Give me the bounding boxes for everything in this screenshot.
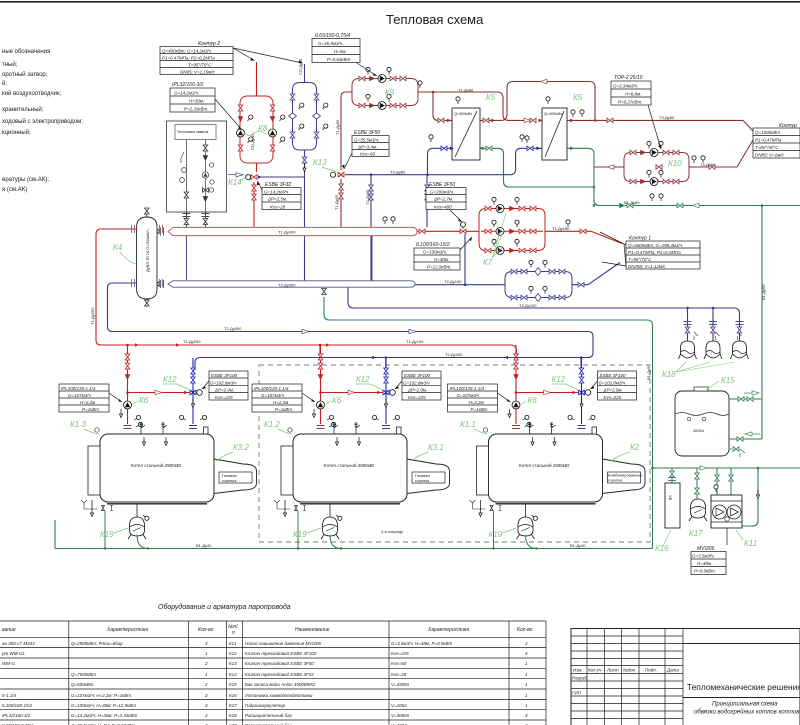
svg-text:Характеристика: Характеристика [106, 627, 148, 633]
svg-text:Q=500кВт: Q=500кВт [71, 682, 94, 687]
svg-text:й;: й; [2, 80, 7, 87]
svg-text:Расширительный бак: Расширительный бак [245, 712, 293, 718]
flow arrows red [135, 343, 139, 347]
svg-text:T=95°/70°C: T=95°/70°C [188, 63, 212, 68]
heat exchanger E1 (K5) [429, 97, 493, 160]
PIPES-LAYER [55, 62, 800, 550]
wire blue loop bottom stem down to blue collector [304, 150, 306, 281]
svg-text:G=3,5м3/ч; H=48м; P=0,9кВт: G=3,5м3/ч; H=48м; P=0,9кВт [391, 641, 453, 646]
svg-text:СО-Ду65: СО-Ду65 [298, 58, 303, 75]
svg-text:Тепловая схема: Тепловая схема [386, 12, 484, 27]
svg-text:№док.: №док. [623, 668, 636, 673]
svg-text:Тепловая завеса: Тепловая завеса [177, 129, 209, 134]
svg-text:IPL32/160-3/2: IPL32/160-3/2 [172, 82, 204, 88]
svg-text:Q=2900кВт; Pmax=6бар: Q=2900кВт; Pmax=6бар [71, 641, 123, 646]
wire K12 riser boiler2 [385, 358, 387, 371]
svg-text:ΔP=3,4м.: ΔP=3,4м. [357, 145, 377, 150]
svg-text:H=30м.: H=30м. [189, 99, 204, 104]
svg-text:К12: К12 [229, 651, 237, 656]
wire blue riser to E1 left port [428, 148, 453, 174]
svg-text:В1-Ду40: В1-Ду40 [196, 543, 212, 548]
svg-text:я (см.АК): я (см.АК) [2, 187, 27, 193]
svg-text:К2: К2 [630, 443, 640, 452]
svg-text:горелка: горелка [608, 478, 623, 483]
svg-text:Клапан трехходовой ESBE 3F50: Клапан трехходовой ESBE 3F50 [245, 660, 314, 666]
svg-text:ДуВП Ф720 G=300м3/ч: ДуВП Ф720 G=300м3/ч [145, 229, 150, 272]
svg-text:G=14,2м3/ч; H=30м; P=2,33кВт: G=14,2м3/ч; H=30м; P=2,33кВт [71, 713, 138, 718]
svg-text:IL65/150-0,75/4: IL65/150-0,75/4 [315, 33, 350, 39]
svg-text:К4: К4 [113, 243, 123, 252]
svg-text:Котел стальной 2900кВт: Котел стальной 2900кВт [519, 462, 570, 468]
info box IPL32/160 [170, 82, 242, 130]
pump group K7 (red 3-branch) [479, 197, 545, 254]
pump group SO blue loop [289, 83, 329, 151]
svg-text:2: 2 [204, 682, 208, 687]
svg-text:G=35,5м3/ч.: G=35,5м3/ч. [318, 41, 343, 46]
wire inter-collector verticals blue [187, 236, 373, 281]
info box ESBE 3F50 no.1 [342, 130, 389, 169]
svg-text:К18: К18 [229, 713, 237, 718]
svg-text:P=12,9кВт.: P=12,9кВт. [427, 265, 451, 270]
wire red collector out y231 to K7 and Kontur1 leader [417, 230, 479, 232]
svg-text:Т2-Ду80: Т2-Ду80 [390, 170, 406, 175]
wire blue collector out y285 to K7b loop [415, 284, 505, 286]
svg-text:Изм.: Изм. [573, 668, 583, 673]
svg-text:G=100м3/ч; H=30м; P=12,9кВт: G=100м3/ч; H=30м; P=12,9кВт [71, 703, 136, 708]
svg-text:К18: К18 [662, 370, 676, 379]
svg-text:Лист: Лист [606, 668, 619, 673]
svg-text:Q=500кВт: Q=500кВт [544, 111, 562, 116]
svg-text:Насос повышения давления MVI20: Насос повышения давления MVI206 [245, 641, 321, 646]
svg-text:Установка химводоподготовки: Установка химводоподготовки [245, 693, 313, 698]
info box IL65/150 [312, 33, 377, 76]
svg-text:DN250; V=1,12м/с: DN250; V=1,12м/с [628, 264, 666, 269]
svg-text:К16: К16 [229, 693, 237, 698]
valve K14 three-way [245, 174, 262, 179]
svg-text:Т2-Ду100: Т2-Ду100 [519, 303, 537, 308]
svg-text:обвязки водогрейных котлов кот: обвязки водогрейных котлов котлов [694, 709, 799, 716]
svg-text:К5: К5 [486, 93, 496, 102]
wire green bottom main y548 [55, 520, 653, 549]
svg-text:Наименование: Наименование [295, 627, 330, 633]
svg-text:Т2-Ду300: Т2-Ду300 [224, 326, 242, 331]
svg-text:В1-Ду40: В1-Ду40 [570, 543, 586, 548]
svg-text:V=4500л: V=4500л [391, 682, 410, 687]
wire green riser x762 from y205 down to K15 [761, 205, 763, 439]
svg-text:Гидроаккумулятор: Гидроаккумулятор [245, 703, 286, 708]
svg-text:ХВ: ХВ [668, 495, 673, 501]
info box MVI206 [691, 546, 726, 575]
svg-text:ан 300-LT М343: ан 300-LT М343 [2, 641, 35, 646]
svg-text:Кол-во: Кол-во [517, 627, 533, 633]
svg-text:ГИП: ГИП [572, 691, 582, 696]
svg-text:ходовый с электроприводом;: ходовый с электроприводом; [2, 118, 83, 125]
wire K13 blue out y175 with rise to E2 left port [345, 148, 542, 174]
water softener K16 [665, 468, 680, 528]
svg-text:К1.3: К1.3 [70, 420, 86, 429]
svg-text:IPL32/160-3/2: IPL32/160-3/2 [2, 713, 31, 718]
wire T2 line A+B blue: K4 left bottom, down x108, right y331.5, down x593, left y357.5, down to boiler3 K12 riser [108, 283, 594, 370]
svg-text:К1.1: К1.1 [460, 420, 476, 429]
wire green B1-Du80 y205 [594, 200, 800, 206]
svg-text:H=8,8м.: H=8,8м. [625, 92, 641, 97]
svg-text:H=5м.: H=5м. [334, 49, 347, 54]
svg-text:К13: К13 [229, 661, 237, 666]
wire green make-up y320 from blue collector to x652 down to y468 [324, 297, 653, 549]
svg-text:V=3000л: V=3000л [391, 713, 410, 718]
svg-text:К13: К13 [313, 158, 327, 167]
info box ESBE 3F50 no.2 [426, 182, 466, 222]
wire T3 leader to Kontur box [743, 120, 754, 132]
wire K10 right out T4 maroon [689, 140, 753, 167]
svg-text:Т1-Ду150: Т1-Ду150 [552, 226, 570, 231]
wire green B1 water main y468 [653, 467, 800, 469]
svg-text:Т1-Ду250: Т1-Ду250 [90, 307, 95, 325]
valves on T3 main near TOR leader [607, 118, 613, 123]
collector T2 (return header) [153, 280, 415, 295]
svg-text:G=200м3/ч.: G=200м3/ч. [430, 190, 454, 195]
svg-text:2: 2 [524, 641, 528, 646]
svg-text:рт WM-GL: рт WM-GL [1, 651, 25, 656]
svg-text:Kvs=28: Kvs=28 [270, 205, 286, 210]
svg-text:5-1.1/4: 5-1.1/4 [2, 693, 17, 698]
svg-text:V=100л: V=100л [391, 703, 407, 708]
heat exchanger E2 (K5) [520, 97, 574, 160]
svg-text:оротный затвор;: оротный затвор; [2, 71, 48, 78]
wire T1 main red: K4 left top, down x96, right y345 to boiler1 riser [96, 229, 517, 358]
svg-text:п: п [232, 630, 235, 636]
wire E1 top out maroon arc over to red T3 main [480, 82, 595, 121]
svg-text:Разраб.: Разраб. [572, 676, 588, 681]
svg-text:ΔP=2,7м.: ΔP=2,7м. [433, 197, 453, 202]
svg-text:Q=400кВт; G=14,2м3/ч: Q=400кВт; G=14,2м3/ч [162, 49, 212, 54]
svg-text:Характеристика: Характеристика [427, 627, 469, 633]
svg-text:DN80; V=1м/с: DN80; V=1м/с [755, 153, 784, 158]
svg-text:2: 2 [204, 661, 208, 666]
svg-text:Клапан трехходовой ESBE 3F32: Клапан трехходовой ESBE 3F32 [245, 671, 314, 677]
svg-text:Kvs=225: Kvs=225 [391, 651, 409, 656]
svg-text:IL100/160-15/2: IL100/160-15/2 [2, 703, 33, 708]
svg-text:К16: К16 [655, 544, 669, 553]
svg-text:P=0,63кВт.: P=0,63кВт. [327, 57, 351, 62]
sheet top border line [0, 1, 800, 3]
TITLEBLOCK-LAYER [571, 629, 800, 725]
info box Kontur 2 [160, 41, 303, 75]
dashed boundary 2nd stage [259, 365, 650, 542]
wire blue x465 from y231 valve down to y285 [464, 234, 466, 285]
svg-text:Kvs=60: Kvs=60 [391, 661, 407, 666]
svg-text:H=30м.: H=30м. [434, 257, 449, 262]
pump group K7b (blue 2-branch) [505, 260, 572, 301]
svg-text:ные обозначения: ные обозначения [2, 49, 50, 55]
wire blue x371 down to blue collector [370, 175, 372, 281]
svg-text:Кол.уч: Кол.уч [588, 668, 602, 673]
svg-text:кий воздухоотводчик;: кий воздухоотводчик; [2, 90, 62, 97]
svg-text:Т1-Ду50: Т1-Ду50 [334, 194, 339, 210]
valves on green B1 y205 [627, 203, 633, 208]
collector T1 (supply header) [153, 227, 425, 235]
wire K12 riser boiler1 [580, 358, 582, 371]
wire E2 green out right to x594 down to B1 main [567, 148, 594, 200]
boiler K1.2 group [252, 345, 450, 549]
svg-text:К1.2: К1.2 [264, 420, 280, 429]
svg-text:К10: К10 [668, 159, 682, 168]
svg-text:ESBE 3F32: ESBE 3F32 [265, 182, 291, 188]
svg-text:Т1-Ду80: Т1-Ду80 [458, 88, 474, 93]
svg-text:2-я очередь: 2-я очередь [381, 529, 403, 534]
valve K13 three-way [330, 172, 344, 177]
info box TOR-2 [611, 75, 661, 149]
wire K14 blue out to x304 [261, 176, 305, 178]
svg-text:ESBE 3F50: ESBE 3F50 [354, 130, 380, 136]
svg-text:ературы (см.АК);: ературы (см.АК); [2, 177, 49, 183]
wire green K11 feed down right [742, 468, 758, 526]
svg-text:горелка: горелка [222, 478, 237, 483]
pump station K11 [711, 468, 742, 545]
svg-text:К14: К14 [228, 178, 242, 187]
svg-text:G=14,2м3/ч.: G=14,2м3/ч. [174, 91, 199, 96]
svg-text:Дата: Дата [666, 668, 679, 673]
svg-text:К14: К14 [229, 672, 237, 677]
svg-text:К7: К7 [483, 258, 493, 267]
svg-text:К5: К5 [573, 93, 583, 102]
svg-text:G=14,2м3/ч.: G=14,2м3/ч. [264, 190, 289, 195]
wire T2 expansion line blue y308 to K18 tanks [348, 287, 740, 341]
svg-text:MVI206: MVI206 [697, 546, 714, 552]
svg-text:Тепломеханические решения: Тепломеханические решения [687, 682, 800, 692]
separator K4 [132, 208, 163, 307]
svg-text:К3.1: К3.1 [428, 443, 444, 452]
svg-text:Т2-Ду150: Т2-Ду150 [444, 279, 462, 284]
svg-text:G=35,5м3/ч.: G=35,5м3/ч. [354, 138, 379, 143]
valves on T4 line [656, 165, 662, 170]
svg-text:Т1-Ду250: Т1-Ду250 [183, 339, 201, 344]
svg-text:К17: К17 [689, 529, 703, 538]
wire E1 green out right-down to x594 y187 [480, 148, 594, 187]
svg-text:G=100м3/ч.: G=100м3/ч. [423, 250, 447, 255]
svg-text:P=2,33кВт.: P=2,33кВт. [184, 107, 208, 112]
svg-text:К17: К17 [229, 703, 237, 708]
svg-text:Kvs=60: Kvs=60 [360, 152, 376, 157]
svg-text:Q=500кВт: Q=500кВт [454, 111, 472, 116]
info box ESBE 3F32 [257, 181, 301, 210]
svg-text:К9: К9 [385, 88, 395, 97]
svg-text:WM-G: WM-G [2, 661, 15, 666]
svg-text:ΔP=2,5м.: ΔP=2,5м. [267, 197, 287, 202]
svg-text:2: 2 [204, 713, 208, 718]
wire K9 right stem maroon y92 to E2 top port [418, 92, 533, 120]
svg-text:Т2-Ду250: Т2-Ду250 [445, 352, 463, 357]
svg-text:Контур 1: Контур 1 [629, 236, 651, 242]
LEGEND-TEXT [2, 49, 83, 193]
valve K7-inlet three-way with actuator [460, 222, 466, 234]
svg-text:DN65; V=1,19м/с: DN65; V=1,19м/с [180, 70, 216, 75]
wire T3 main maroon y120.5 [567, 119, 743, 121]
svg-text:кционный;: кционный; [2, 129, 31, 136]
boiler K1.3 group [59, 345, 257, 549]
boiler K1.1 group [448, 345, 646, 549]
svg-text:горелка: горелка [415, 478, 430, 483]
svg-text:Бак запаса воды Anion 4500ВФК2: Бак запаса воды Anion 4500ВФК2 [245, 682, 316, 687]
valves on riser stubs above collector [252, 185, 257, 191]
info box Kontur top right [753, 123, 800, 158]
hydro accumulator K17 [689, 468, 707, 521]
svg-text:Т2-Ду300: Т2-Ду300 [278, 282, 296, 287]
info box IL100/160 [414, 237, 472, 270]
svg-text:T=60°/40°C: T=60°/40°C [755, 145, 779, 150]
storage tank K15 [675, 387, 762, 457]
pump group K8 (red loop with 2 pump rails) [237, 96, 286, 163]
wire maroon x594 to K10 left [594, 166, 624, 168]
wire K18 tank stubs [688, 308, 714, 341]
control box (top-left cabinet) [167, 121, 227, 225]
svg-text:тный;: тный; [2, 61, 18, 68]
svg-text:В1-Ду65: В1-Ду65 [761, 284, 766, 300]
svg-text:К11: К11 [229, 641, 237, 646]
svg-text:4500л: 4500л [693, 428, 705, 433]
pump group K9 (maroon loop horizontal) [352, 67, 422, 109]
TABLE-LAYER [0, 603, 546, 725]
svg-text:P1=0,47МПа: P1=0,47МПа [755, 138, 782, 143]
svg-text:Т1-Ду150: Т1-Ду150 [406, 339, 424, 344]
svg-text:К11: К11 [744, 539, 757, 548]
svg-text:G=107м3/ч; H=2,2м; P=1кВт.: G=107м3/ч; H=2,2м; P=1кВт. [71, 693, 132, 698]
wire K9 left stem maroon down x339 to K13 to red collector [341, 92, 352, 227]
svg-text:T=95°/70°C: T=95°/70°C [628, 257, 652, 262]
svg-text:P=0,27кВт.: P=0,27кВт. [618, 100, 642, 105]
svg-text:G=3,5м3/ч.: G=3,5м3/ч. [692, 554, 715, 559]
svg-text:IL100/160-15/2: IL100/160-15/2 [416, 242, 450, 248]
svg-text:H=48м.: H=48м. [697, 561, 712, 566]
svg-text:К3.2: К3.2 [233, 443, 249, 452]
boiler texts [131, 462, 570, 468]
svg-text:Kvs=400: Kvs=400 [434, 205, 452, 210]
svg-text:Q=7500кВт: Q=7500кВт [71, 672, 96, 677]
wire maroon drop to E1 top port [433, 92, 452, 120]
svg-text:К15: К15 [229, 682, 237, 687]
svg-text:P1=0,47МПа; P2=0,2МПа: P1=0,47МПа; P2=0,2МПа [162, 56, 215, 61]
wire control box stubs to red collector [186, 212, 205, 227]
expansion tanks K18 x3 [679, 322, 749, 360]
svg-text:Q=5600кВт; G=198,4м3/ч.: Q=5600кВт; G=198,4м3/ч. [628, 243, 683, 248]
junction dots [126, 119, 596, 346]
svg-text:P1=0,47МПа; P2=0,2МПа: P1=0,47МПа; P2=0,2МПа [628, 250, 681, 255]
svg-text:вание: вание [2, 627, 16, 633]
svg-text:Т3-Ду80: Т3-Ду80 [659, 115, 675, 120]
svg-text:Контур 2: Контур 2 [198, 41, 220, 47]
wire K8 loop top stem red [256, 62, 258, 96]
svg-text:Клапан трехходовой ESBE 3F100: Клапан трехходовой ESBE 3F100 [245, 650, 317, 656]
svg-text:ESBE 3F50: ESBE 3F50 [429, 182, 455, 188]
svg-text:Т1-Ду300: Т1-Ду300 [278, 230, 296, 235]
svg-text:Котел стальной 2900кВт: Котел стальной 2900кВт [324, 462, 375, 468]
info box Kontur 1 [600, 232, 700, 269]
svg-text:хранительный;: хранительный; [2, 106, 44, 113]
svg-text:Принципиальная схема: Принципиальная схема [712, 702, 778, 708]
svg-text:Оборудование и арматура паропр: Оборудование и арматура паропровода [158, 603, 291, 611]
svg-text:ТОР-2 25/10: ТОР-2 25/10 [614, 75, 643, 81]
pipe labels [90, 58, 766, 548]
wire blue loop top stem [304, 64, 306, 83]
wire blue x427 down to red collector zone [426, 175, 428, 227]
svg-text:Т1-Ду80: Т1-Ду80 [335, 119, 340, 135]
svg-text:Котел стальной 2900кВт: Котел стальной 2900кВт [131, 462, 182, 468]
svg-text:P=0,9кВт.: P=0,9кВт. [694, 569, 716, 574]
wire K8 bottom stem to K14 to red collector [254, 163, 257, 227]
svg-text:G=2,34м3/ч.: G=2,34м3/ч. [613, 84, 638, 89]
svg-text:К15: К15 [721, 376, 735, 385]
svg-text:Кол-во: Кол-во [198, 627, 214, 633]
wire red riser boiler2 top [319, 345, 321, 358]
svg-text:Подп.: Подп. [645, 668, 657, 673]
svg-text:Kvs=28: Kvs=28 [391, 672, 407, 677]
svg-text:Q=1000кВт: Q=1000кВт [755, 130, 780, 135]
pump group K10 (maroon loop) [624, 141, 689, 185]
